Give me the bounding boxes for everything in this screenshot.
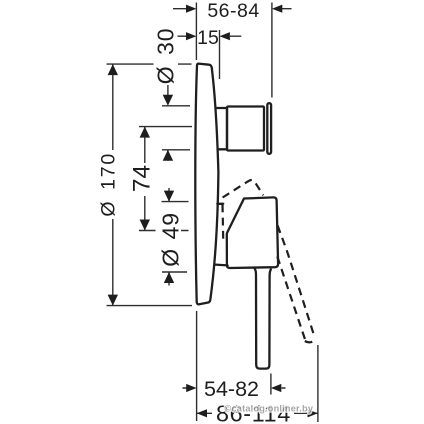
extension line cylinder-top (Ø30 upper) <box>162 105 190 107</box>
extension line plate-bottom (Ø170 bottom) <box>107 305 193 307</box>
arrowhead Ø30 bottom (up, outside) <box>163 150 173 161</box>
extension line plate-top (Ø170 top / Ø30 text gap) <box>107 63 192 65</box>
svg-text:©catalog.onliner.by: ©catalog.onliner.by <box>225 404 314 414</box>
arrowhead Ø30 top (down, outside) <box>163 95 173 106</box>
extension line 54-82 / 86-114 left (plate front, below) <box>196 311 198 421</box>
wall sleeve (step behind spout) <box>217 108 228 149</box>
escutcheon plate (side profile) <box>195 64 218 305</box>
arrowhead 56-84 right (left-pointing, outside) <box>272 5 282 13</box>
arrowhead Ø49 top (down, outside) <box>164 191 174 202</box>
extension line 86-114 right (dashed lever end) <box>317 345 319 422</box>
dimension line Ø170 <box>112 64 114 306</box>
dimension line Ø30 arrow tails <box>167 85 169 161</box>
handle hub bottom <box>215 263 227 266</box>
spout body cylinder <box>227 107 264 151</box>
extension line 54-82 right (lever face) <box>270 374 272 395</box>
extension line cylinder-bottom (Ø30 lower) <box>162 149 190 151</box>
extension line 15 right <box>219 30 221 79</box>
arrowhead Ø170 top (up) <box>108 64 118 75</box>
arrowhead 86-114 right (right-pointing, inside) <box>308 409 318 417</box>
arrowhead 54-82 right (left-pointing, outside) <box>271 384 281 392</box>
svg-text:Ø 30: Ø 30 <box>153 28 179 85</box>
dashed rotated handle: top edge over body <box>223 180 264 198</box>
arrowhead 54-82 left (right-pointing, outside) <box>186 384 196 392</box>
arrowhead Ø49 bottom (up, outside) <box>164 272 174 283</box>
handle hub step (top) <box>217 203 223 205</box>
svg-text:15: 15 <box>197 27 219 49</box>
dimension line 74 <box>144 127 146 231</box>
dimension line 54-82 arrow tails <box>183 387 286 389</box>
dimension line 56-84 arrow tails <box>173 8 292 10</box>
arrowhead 15 left (right-pointing, outside) <box>186 32 196 40</box>
arrowhead 74 bottom (down) <box>140 220 150 231</box>
svg-text:Ø 170: Ø 170 <box>98 152 120 217</box>
svg-text:56-84: 56-84 <box>207 0 259 22</box>
arrowhead Ø170 bottom (down) <box>108 295 118 306</box>
arrowhead 15 right (left-pointing, outside) <box>220 32 230 40</box>
extension line 56-84 left (plate front) <box>195 3 197 61</box>
extension line handle-top (Ø49 upper) <box>162 201 189 203</box>
arrowhead 86-114 left (left-pointing, inside) <box>197 409 207 417</box>
arrowhead 74 top (up) <box>140 127 150 138</box>
svg-text:54-82: 54-82 <box>204 377 259 401</box>
handle body <box>227 197 278 268</box>
dashed rotated handle: right edge + lever right side <box>278 226 315 339</box>
dimension line 86-114 <box>197 412 318 414</box>
handle lever bar <box>255 269 271 369</box>
arrowhead 56-84 left (right-pointing, outside) <box>186 5 196 13</box>
extension line cylinder-axis (74 upper) <box>139 126 192 128</box>
dimension line Ø49 arrow tails <box>168 188 170 286</box>
spout end flange <box>267 103 271 154</box>
extension line handle-axis (74 lower, gap for Ø49 text) <box>139 230 189 232</box>
dashed rotated handle: left edge near plate <box>221 205 224 244</box>
dashed rotated handle: lever end cap <box>305 340 316 343</box>
svg-text:74: 74 <box>129 165 156 192</box>
dashed rotated handle: lever left side <box>277 257 305 341</box>
svg-text:Ø 49: Ø 49 <box>157 212 183 267</box>
extension line handle-bottom (Ø49 lower) <box>162 271 187 273</box>
extension line 56-84 right (flange face) <box>271 3 273 98</box>
dimension line 15 arrow tails <box>178 35 242 37</box>
